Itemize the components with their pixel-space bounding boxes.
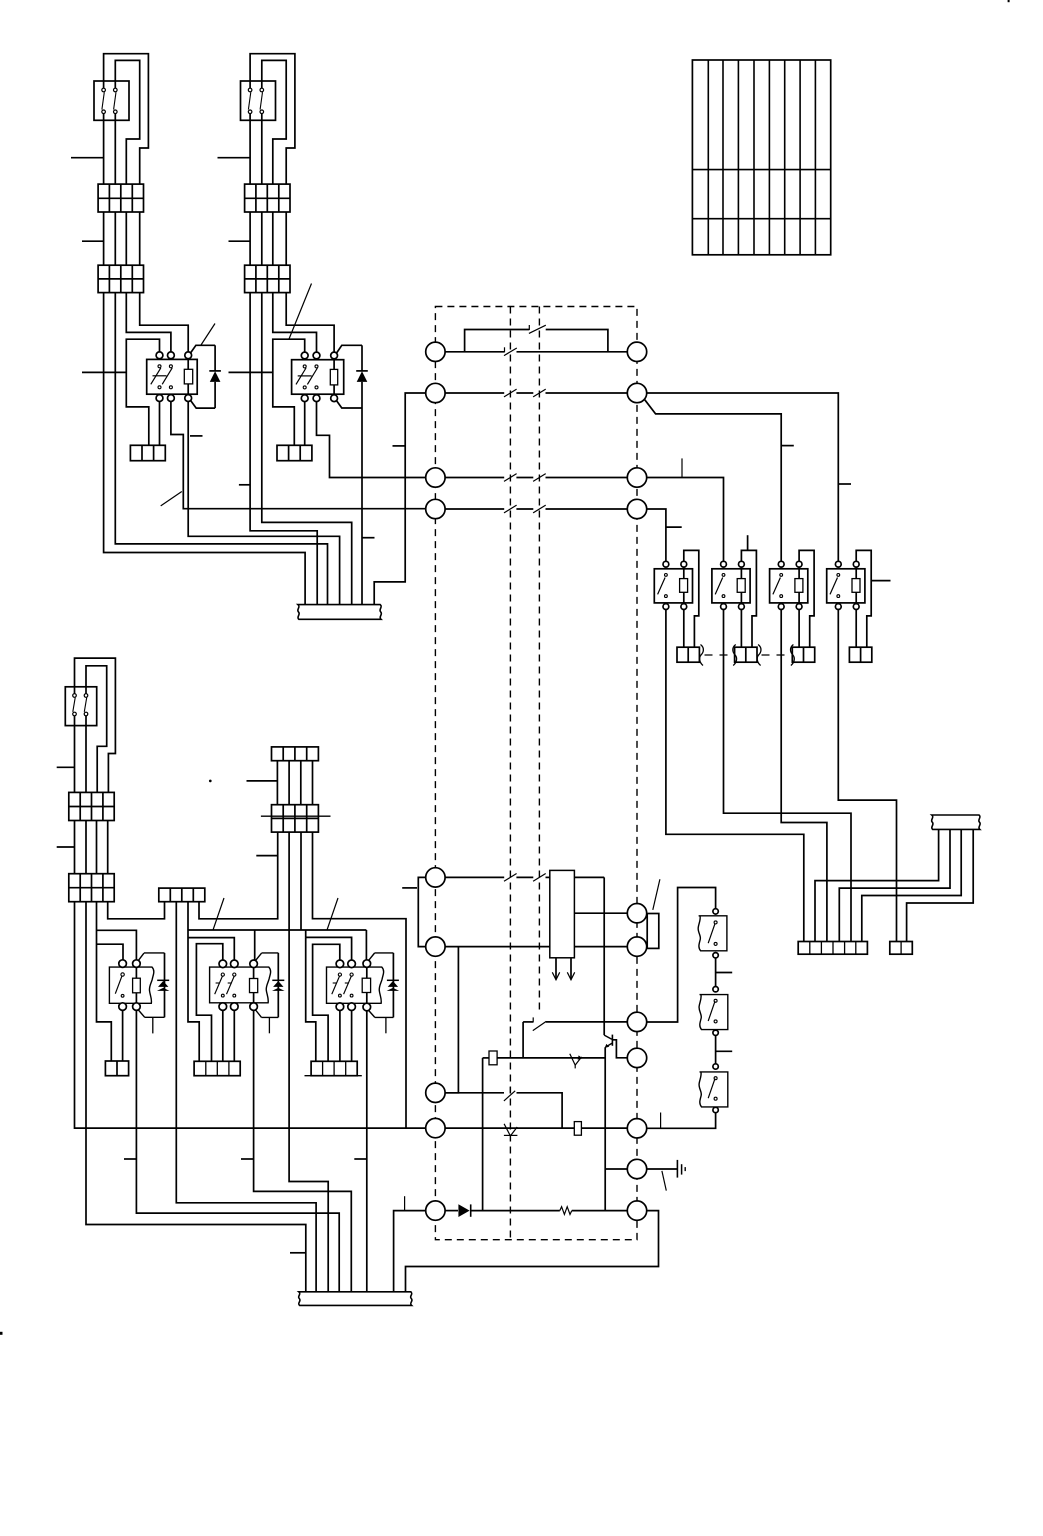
connector splice mark 1 xyxy=(570,1054,582,1065)
node stub a2 xyxy=(82,240,104,242)
relay K7 box xyxy=(109,967,153,1003)
wire K8 TL bypass to J13 xyxy=(196,944,222,1062)
jumper block pins R5-R6 xyxy=(647,914,659,949)
connector J10 (blockC 4x1) xyxy=(159,888,205,902)
wire relay K5 to connector J7 pin3 xyxy=(781,610,827,942)
relay K1 contacts xyxy=(158,365,161,368)
relay K1 box xyxy=(147,359,198,394)
relay K9 box xyxy=(327,967,384,1003)
connector J13 (4 squares) xyxy=(194,1061,240,1075)
wire unit pin R2 branch to relay K5 xyxy=(645,400,781,562)
wire branch to relay K1 pin A xyxy=(126,339,159,445)
wire relay K4 to connector J7 pin5 xyxy=(724,610,852,942)
relay K8 pins xyxy=(219,960,227,968)
wire blockC col3 branches xyxy=(188,902,199,1062)
wire unit row L5 with contacts xyxy=(445,876,504,878)
wavy mark J3 connector xyxy=(700,645,704,666)
dashed link J3-J4 xyxy=(705,654,732,656)
connector J2C (3 squares) xyxy=(277,445,312,460)
relay K4 xyxy=(712,569,750,603)
relay K5 xyxy=(770,569,808,603)
relay K8 contacts xyxy=(221,973,224,976)
wire S5 to S6 xyxy=(715,1035,717,1064)
diode D5 xyxy=(392,953,394,1018)
wire unit pin R7 to switch chain xyxy=(647,888,716,1023)
wire S2 inner loop xyxy=(262,60,286,184)
harness bar W3 xyxy=(299,1292,412,1306)
wire Q1 base to pin R8 xyxy=(612,1040,627,1058)
wire col1 group2 to harness bar xyxy=(250,114,317,605)
node tick near bar W3 xyxy=(290,1252,306,1254)
connector J8 (2 squares) xyxy=(890,942,913,955)
diode D4 xyxy=(277,953,279,1018)
arrow output 1 of M1 xyxy=(555,958,557,980)
wire K1 pin F to harness bar xyxy=(188,402,339,605)
wire to relay K8 pin TR xyxy=(254,930,256,960)
resistor R2 (inline) xyxy=(574,1122,581,1136)
wire V1 row6 down to pin L7 xyxy=(445,947,458,1093)
wire g3 col3 branches xyxy=(97,792,112,1061)
relay K7 contacts xyxy=(121,973,124,976)
relay K2 box xyxy=(292,360,344,395)
relay K2 contacts xyxy=(303,365,306,368)
wire col1 group1 to harness bar xyxy=(104,114,306,605)
wire S1 outer loop xyxy=(104,54,149,184)
wire col4 group2 to relay K2 pin C xyxy=(286,184,334,352)
leader line K9 xyxy=(327,898,338,930)
relay K6 side stub xyxy=(871,580,891,582)
wire K8 pin TR to D4 xyxy=(256,953,279,961)
wire unit row2 with contacts xyxy=(445,392,504,394)
wire Q1 emitter down xyxy=(604,1047,606,1210)
dot mark xyxy=(209,780,212,783)
switch S7 (double-pole switch) xyxy=(65,687,96,726)
resistor R1 (inline) xyxy=(489,1051,497,1065)
wire col4 group1 to relay K1 pin C xyxy=(140,184,189,352)
wire bus3 bar to unit pin L9 xyxy=(394,1211,426,1292)
wire unit row L6 to R6 xyxy=(445,946,550,948)
wire col2 group1 to harness bar xyxy=(115,114,327,605)
wire K9 pin TR to D5 xyxy=(369,953,394,960)
wire K7 pin BR to D3 xyxy=(138,1010,164,1017)
relay K9 pins xyxy=(336,960,344,968)
wire unit pin R2 to relay K6 xyxy=(647,393,839,561)
relay K4 loop stub xyxy=(747,535,749,550)
wire S6 to unit pin R9 xyxy=(647,1113,716,1129)
harness bar W1 xyxy=(298,605,382,620)
leader line K2 xyxy=(289,284,312,340)
wire K1 pin E to unit pin L4 xyxy=(171,402,426,509)
leader line ground xyxy=(662,1171,666,1191)
harness bar W2 xyxy=(932,815,981,829)
wire relay K3 to connector J7 pin1 xyxy=(666,610,804,942)
connector J1B (4x2 block) xyxy=(98,265,143,292)
node stub d2 xyxy=(256,855,277,857)
wire unit row1 with contact xyxy=(445,351,504,353)
wire V3 xyxy=(522,1022,524,1058)
wire branch to relay K2 pin A xyxy=(273,339,305,445)
connector J7 (6 squares) xyxy=(798,942,867,955)
switch S4 xyxy=(698,916,727,951)
node tick K7 BR wire xyxy=(124,1158,136,1160)
node stub on K3 feed xyxy=(666,526,682,528)
wire S2 outer loop xyxy=(250,54,295,184)
switch S2 (double-pole switch) xyxy=(241,81,276,120)
wire jumper pins L5-L6 xyxy=(418,877,425,946)
mark at left margin xyxy=(0,1332,3,1335)
relay K8 box xyxy=(210,967,271,1003)
relay K2 coil xyxy=(330,369,337,385)
control unit dashed outline xyxy=(435,307,637,1240)
connector J2B (4x2 block) xyxy=(245,265,290,292)
node tick bus3 xyxy=(404,1196,406,1210)
relay K2 pins xyxy=(301,352,308,359)
wire K9 pin BM to J14 xyxy=(351,1011,353,1062)
wire K8 pin BL to J13 xyxy=(222,1010,224,1061)
dashed link J4-J5 xyxy=(762,654,789,656)
wire K8 pin BR to D4 xyxy=(256,1010,279,1017)
transistor Q1 xyxy=(604,1035,612,1039)
node tick on R3 wire xyxy=(681,458,683,477)
node stub on L2 wire xyxy=(393,445,406,447)
node stub d1 xyxy=(247,780,278,782)
wire pin R7 row with contact xyxy=(523,1021,533,1023)
node tick above R9 wire xyxy=(660,1113,662,1129)
wire pin R10 row (emitter branch) xyxy=(605,1168,627,1170)
node stub near col1 group2 xyxy=(239,484,250,486)
wire K1 pin C to D1 anode xyxy=(191,345,216,353)
connector J1C (3 squares) xyxy=(130,445,165,460)
wire col3 group1 to relay K1 pin B xyxy=(126,184,171,352)
ground symbol xyxy=(676,1160,678,1178)
wire bottom row left xyxy=(445,1210,458,1212)
wire W2-3 to J7 pin6 xyxy=(862,829,961,941)
wire V4 (module to transistor) xyxy=(603,877,605,1035)
wire g3 col4 to blockC col1 xyxy=(108,792,165,918)
diode D7 xyxy=(458,1204,469,1217)
node stub c1 xyxy=(57,766,75,768)
wire K1 pin D to connector J1C xyxy=(159,402,161,446)
wavy mark J5 connector left xyxy=(791,645,795,666)
relay K1 pins xyxy=(156,352,163,359)
mark at top margin xyxy=(1008,0,1010,2)
connector J1A (4x2 block) xyxy=(98,184,143,212)
control unit internal dashed line 1 xyxy=(509,307,511,1240)
wire K8 pin BM to J13 xyxy=(233,1010,235,1061)
wire K9 pin BL to J14 xyxy=(339,1011,341,1062)
node stub a3 xyxy=(82,371,126,373)
leader line below K1 xyxy=(161,492,182,506)
wire bottom row right xyxy=(572,1210,628,1212)
wire block4 col2 to bar W3 xyxy=(289,832,328,1292)
wire V2 xyxy=(482,1058,484,1211)
arrow output 2 of M1 xyxy=(570,958,572,980)
diode D1 xyxy=(214,345,216,371)
wire unit row1 bypass with contact xyxy=(465,330,530,352)
node stub b3 xyxy=(229,371,273,373)
wire module M1 to pin R5 xyxy=(574,912,627,914)
switch S1 (top-left double-pole switch) xyxy=(94,81,129,120)
wire g3 col2 to bar W3 xyxy=(86,716,306,1292)
node stub jumper L5-L6 xyxy=(402,887,417,889)
wire W2-1 to J7 pin2 xyxy=(815,829,939,941)
wire S1 inner loop xyxy=(115,60,139,184)
wire K9 pin BR to bar W3 xyxy=(366,1011,368,1292)
node stub chain 2 xyxy=(716,1050,733,1052)
node stub below K8 xyxy=(268,1017,270,1033)
node stub c2 xyxy=(57,846,75,848)
wire K2 pin D to connector J2C xyxy=(304,402,306,446)
wire K7 pin TR to D3 xyxy=(138,953,164,961)
wire relay K6 to connector J8 pin1 xyxy=(838,610,896,942)
relay K9 contacts xyxy=(338,973,341,976)
wire W2-2 to J7 pin4 xyxy=(839,829,950,941)
diode D2 xyxy=(361,345,363,371)
wire S7 inner loop xyxy=(86,666,107,793)
node stub below K7 xyxy=(152,1017,154,1033)
connector J2A (4x2 block) xyxy=(245,184,290,212)
node stub near K1 xyxy=(190,435,203,437)
connector J9B (4x2 block) xyxy=(69,874,114,902)
wire unit pin R3 to relay K4 xyxy=(647,478,724,562)
wire pin R11 return to bar W3 xyxy=(406,1211,659,1292)
wire unit row3 with contacts xyxy=(445,477,504,479)
connector splice mark 2 xyxy=(504,1124,517,1136)
wire K2 pin F to D2 cathode xyxy=(337,401,363,408)
leader line jumper R5-R6 xyxy=(653,879,660,910)
wire K9 pin BR to D5 xyxy=(369,1011,394,1018)
wire K9 TL bypass to J14 xyxy=(313,944,340,1061)
node stub on K5 feed xyxy=(781,445,794,447)
resistor R3 (zigzag) xyxy=(560,1207,572,1215)
wire g3 col1 to unit pin L8 (bus1) xyxy=(75,716,426,1128)
connector J11A (4x1 block) xyxy=(272,747,319,761)
connector J14 (4 squares) xyxy=(311,1061,357,1075)
wires J11A to J11B xyxy=(276,761,278,805)
node stub a1 xyxy=(71,157,104,159)
wire branch to K9 coil pins xyxy=(305,930,307,937)
wire to relay K9 pin TR xyxy=(365,930,367,960)
relay K8 coil xyxy=(250,979,258,993)
relay K1 coil xyxy=(184,369,192,384)
wire S4 to S5 xyxy=(715,958,717,987)
node stub chain 1 xyxy=(716,972,733,974)
wavy mark J4 connector left xyxy=(733,645,737,666)
wire block4 col4 long line to bus1 xyxy=(313,832,407,1128)
wire pin R10 to ground xyxy=(647,1168,678,1170)
wire col2 group2 to harness bar xyxy=(262,114,352,605)
relay K3 xyxy=(654,569,692,603)
wire blockC col2 to bar W3 xyxy=(176,902,316,1292)
node stub D2 line xyxy=(362,537,375,539)
node stub on K6 feed xyxy=(838,483,851,485)
relay K7 pins xyxy=(119,960,127,968)
wire bottom row middle xyxy=(471,1210,560,1212)
wire block4 col3 (H930) xyxy=(300,832,302,930)
wire contact pin L7 row xyxy=(445,1092,504,1094)
node stub below K9 xyxy=(385,1017,387,1033)
connector J9A (4x2 block) xyxy=(69,792,114,820)
switch S6 xyxy=(699,1072,728,1107)
connector J11B (4x2 block) xyxy=(272,805,319,832)
wire K8 pin BR to bar W3 xyxy=(254,1010,352,1291)
leader line K8 xyxy=(213,898,224,930)
unit right pins R1-R11 xyxy=(627,342,646,361)
control unit internal dashed line 2 xyxy=(538,307,540,1015)
wire crossing J11B xyxy=(261,815,331,817)
wire unit pin R4 to relay K3 xyxy=(647,509,666,561)
wire W2-4 to J8 pin2 xyxy=(907,829,974,941)
relay K7 coil xyxy=(133,978,141,993)
node stub b2 xyxy=(229,240,251,242)
wire K1 pin F to D1 cathode xyxy=(191,401,216,409)
lamp module M1 (tall rect) xyxy=(550,870,575,957)
wire module M1 to V4 xyxy=(574,876,604,878)
relay K6 xyxy=(827,569,865,603)
node tick K8 BR wire xyxy=(241,1158,254,1160)
relay K9 coil xyxy=(362,978,370,992)
wire from unit pin L2 to harness bar xyxy=(374,393,426,604)
node tick K9 BR wire xyxy=(354,1158,367,1160)
wire pin L8 row xyxy=(445,1127,574,1129)
wire row 1058 xyxy=(483,1057,489,1059)
node stub b1 xyxy=(218,157,251,159)
connector J12 (2 squares) xyxy=(105,1061,128,1076)
wire K2 pin E to unit pin L3 xyxy=(317,402,426,478)
table TB1 (connector pin table) xyxy=(692,60,830,255)
switch S5 xyxy=(699,995,728,1030)
wire underline J14 xyxy=(305,1075,362,1077)
wire blockC col4 to block4 col1 xyxy=(199,832,278,919)
diode D3 (on blockC col1 line) xyxy=(164,953,166,1017)
wire K7 pin BR to bar W3 xyxy=(136,1010,339,1291)
wire col3 group2 to relay K2 pin B xyxy=(273,184,317,352)
wire S7 outer loop xyxy=(75,658,116,792)
wire K7 pin BL to J12 xyxy=(122,1010,124,1061)
wire unit row4 with contacts xyxy=(445,508,504,510)
leader line K1 xyxy=(201,324,215,346)
unit left pins L1-L9 xyxy=(426,342,445,361)
wire K2 pin C to D2 anode xyxy=(337,345,363,353)
wavy mark J4 connector right xyxy=(757,645,761,666)
